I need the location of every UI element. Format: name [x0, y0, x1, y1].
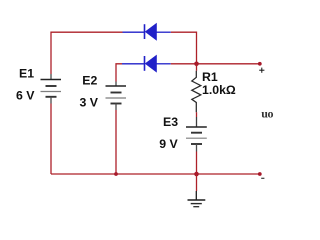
wire E2 bottom [115, 110, 117, 174]
node B junction dot (E2 bottom) [114, 172, 118, 176]
label E3 [163, 115, 178, 129]
svg-text:6 V: 6 V [16, 89, 35, 103]
svg-text:E3: E3 [163, 115, 178, 129]
label 9 V [159, 137, 178, 151]
svg-text:E1: E1 [19, 66, 34, 80]
label 6 V [16, 89, 35, 103]
label R1 [202, 70, 218, 84]
node C junction dot (E3 bottom / ground) [194, 172, 199, 177]
wire R1 to E3 [196, 112, 198, 117]
wire E1 bottom [50, 104, 52, 175]
label - [261, 177, 264, 179]
wire E3 to bottom rail [196, 152, 198, 175]
wire top rail left (E1 top to D1 anode lead) [51, 32, 123, 74]
wire bottom rail [51, 173, 260, 175]
wire D2 cathode to node A [171, 63, 197, 65]
ground [188, 191, 206, 207]
wire node C to ground [196, 174, 198, 191]
label 1.0kΩ [202, 83, 236, 97]
wire E2 top (E2 to D2 lead) [116, 64, 122, 82]
diode D2 [122, 55, 171, 71]
battery E1 [41, 74, 62, 104]
label + [259, 68, 264, 73]
node A junction dot [194, 62, 199, 67]
svg-text:uo: uo [261, 107, 273, 121]
battery E3 [186, 117, 207, 152]
diode D1 [123, 24, 171, 41]
terminal dot + [258, 62, 262, 66]
label E1 [19, 66, 34, 80]
wire top rail right (D1 cathode to node A column) [171, 32, 197, 64]
label E2 [82, 74, 97, 88]
battery E2 [106, 82, 127, 111]
wire node A to + terminal [197, 63, 260, 65]
svg-text:R1: R1 [202, 70, 218, 84]
resistor R1 [192, 64, 201, 112]
svg-text:3 V: 3 V [80, 96, 99, 110]
svg-text:1.0kΩ: 1.0kΩ [202, 83, 236, 97]
label uo [261, 107, 273, 121]
svg-text:E2: E2 [82, 74, 97, 88]
label 3 V [80, 96, 99, 110]
terminal dot - [258, 172, 262, 176]
svg-text:9 V: 9 V [159, 137, 178, 151]
